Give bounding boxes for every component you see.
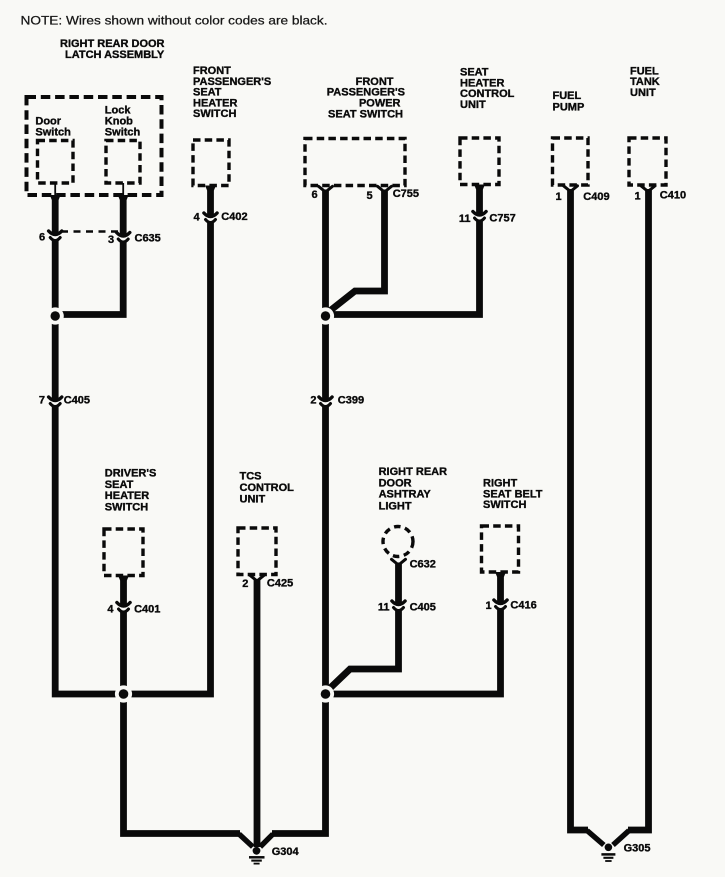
svg-text:FUEL: FUEL bbox=[553, 90, 582, 102]
door switch box (dashed) bbox=[38, 141, 74, 184]
connector C405 (left wire) bbox=[49, 397, 62, 407]
svg-text:5: 5 bbox=[367, 190, 373, 202]
connector C405 label bbox=[64, 395, 90, 407]
driver's seat heater switch box (dashed) bbox=[104, 529, 143, 576]
svg-text:C632: C632 bbox=[410, 559, 436, 571]
wire: bottom bus junction to ground G304 bbox=[260, 692, 325, 847]
connector C409 label bbox=[583, 191, 609, 203]
svg-text:C402: C402 bbox=[221, 211, 247, 223]
wire: C405 down, right along bottom, up to C402 bbox=[55, 223, 210, 695]
label: fuel pump bbox=[553, 90, 585, 113]
wire: pin 6 down through junction to C399 bbox=[322, 190, 329, 401]
fuel tank unit box (dashed) bbox=[629, 138, 666, 185]
terminal pin 1 of C410 bbox=[641, 186, 655, 192]
svg-text:UNIT: UNIT bbox=[630, 87, 656, 99]
connector C635 left half bbox=[49, 231, 62, 241]
right seat belt switch box (dashed) bbox=[482, 526, 519, 572]
pin 2 label bbox=[242, 578, 248, 590]
TCS control unit box (dashed) bbox=[238, 528, 276, 575]
svg-text:4: 4 bbox=[194, 212, 201, 224]
wire: door switch to connector C635 pin 6 bbox=[50, 195, 61, 234]
svg-text:G305: G305 bbox=[624, 843, 651, 855]
svg-text:CONTROL: CONTROL bbox=[240, 482, 295, 494]
connector C416 label bbox=[510, 600, 536, 612]
pin 6 label bbox=[39, 232, 45, 244]
terminal of C632 bbox=[392, 559, 406, 565]
connector C425 label bbox=[267, 578, 293, 590]
svg-text:C410: C410 bbox=[660, 190, 686, 202]
wire: lock knob switch to connector C635 pin 3 bbox=[118, 195, 129, 236]
pin 11 label bbox=[459, 213, 471, 225]
label: right seat belt switch bbox=[483, 478, 543, 512]
svg-text:C755: C755 bbox=[393, 188, 419, 200]
label: front passenger's power seat switch bbox=[327, 76, 405, 120]
svg-text:ASHTRAY: ASHTRAY bbox=[379, 489, 432, 501]
ground G304 label bbox=[272, 846, 300, 858]
svg-text:UNIT: UNIT bbox=[240, 494, 266, 506]
wire: TCS to ground G304 bbox=[254, 579, 261, 847]
junction node (bottom bus) bbox=[317, 685, 334, 702]
label: TCS control unit bbox=[240, 471, 295, 506]
ground G304 bbox=[249, 847, 265, 864]
svg-text:C409: C409 bbox=[583, 191, 609, 203]
label: right rear door latch assembly bbox=[60, 38, 165, 61]
connector C402 label bbox=[221, 211, 247, 223]
connector C401 bbox=[117, 603, 130, 613]
terminal pin 5 of C755 bbox=[378, 186, 392, 192]
connector C402 bbox=[204, 213, 217, 223]
svg-text:6: 6 bbox=[39, 232, 45, 244]
stub wire from door switch box bbox=[54, 183, 56, 196]
pin 7 label bbox=[39, 395, 45, 407]
right rear door latch assembly box (dashed) bbox=[27, 97, 162, 195]
svg-text:C401: C401 bbox=[134, 604, 160, 616]
ashtray light bulb (dashed circle) bbox=[383, 527, 413, 557]
svg-text:1: 1 bbox=[635, 191, 641, 203]
connector C757 bbox=[473, 212, 486, 222]
label: door switch bbox=[35, 116, 71, 139]
wire: switch to connector C416 pin 1 bbox=[495, 572, 506, 603]
wire: C399 down to junction bbox=[322, 407, 329, 695]
pin 1 label bbox=[486, 600, 492, 612]
label: driver's seat heater switch bbox=[105, 468, 157, 514]
svg-text:11: 11 bbox=[378, 602, 390, 614]
ground G305 label bbox=[624, 843, 651, 855]
stub wire from lock knob switch box bbox=[122, 183, 124, 196]
svg-text:PUMP: PUMP bbox=[553, 101, 585, 113]
connector C416 bbox=[494, 600, 507, 610]
junction node (power seat/heater control) bbox=[317, 307, 334, 324]
connector C410 label bbox=[660, 190, 686, 202]
svg-text:SWITCH: SWITCH bbox=[483, 499, 526, 511]
connector C632 label bbox=[410, 559, 436, 571]
connector C757 label bbox=[489, 213, 515, 225]
pin 11 label bbox=[378, 602, 390, 614]
svg-text:LIGHT: LIGHT bbox=[379, 500, 412, 512]
label: right rear door ashtray light bbox=[379, 466, 448, 512]
pin 1 label bbox=[635, 191, 641, 203]
terminal pin 1 of C409 bbox=[564, 186, 578, 192]
svg-text:1: 1 bbox=[486, 600, 492, 612]
label: fuel tank unit bbox=[630, 66, 660, 99]
svg-text:NOTE: Wires shown without colo: NOTE: Wires shown without color codes ar… bbox=[21, 14, 328, 28]
wire: fuel pump to ground G305 bbox=[571, 189, 604, 845]
pin 1 label bbox=[556, 191, 562, 203]
svg-text:HEATER: HEATER bbox=[105, 490, 149, 502]
label: front passenger's seat heater switch bbox=[193, 65, 271, 120]
wire: switch to connector C401 pin 4 bbox=[118, 576, 129, 606]
svg-text:C416: C416 bbox=[510, 600, 536, 612]
label: lock knob switch bbox=[105, 105, 141, 139]
svg-text:11: 11 bbox=[459, 213, 471, 225]
terminal pin 6 of C755 bbox=[319, 186, 333, 192]
wire: unit to connector C757 pin 11 bbox=[474, 185, 485, 215]
pin 4 label bbox=[107, 604, 114, 616]
svg-text:SEAT: SEAT bbox=[105, 479, 134, 491]
svg-text:C635: C635 bbox=[135, 233, 161, 245]
svg-text:DOOR: DOOR bbox=[379, 478, 412, 490]
connector C399 bbox=[319, 397, 332, 407]
svg-text:C399: C399 bbox=[338, 395, 364, 407]
note text bbox=[21, 14, 328, 28]
svg-text:4: 4 bbox=[107, 604, 114, 616]
svg-text:Switch: Switch bbox=[35, 127, 71, 139]
front passenger's power seat switch box (dashed) bbox=[305, 139, 405, 186]
svg-text:C757: C757 bbox=[489, 213, 515, 225]
pin 5 label bbox=[367, 190, 373, 202]
wire: pin 6 down to junction bbox=[52, 241, 59, 401]
wire: switch to connector C402 pin 4 bbox=[205, 186, 216, 217]
svg-text:7: 7 bbox=[39, 395, 45, 407]
connector C405 (ashtray) bbox=[392, 601, 405, 611]
pin 4 label bbox=[194, 212, 201, 224]
connector C635 right half bbox=[117, 233, 130, 243]
pin 6 label bbox=[312, 189, 318, 201]
svg-text:UNIT: UNIT bbox=[460, 99, 486, 111]
svg-text:2: 2 bbox=[310, 395, 316, 407]
label: seat heater control unit bbox=[460, 67, 515, 111]
connector C401 label bbox=[134, 604, 160, 616]
terminal pin 2 of C425 bbox=[250, 575, 264, 581]
wire: C405 down, left, diagonal to junction bbox=[327, 611, 399, 692]
connector C635 label bbox=[135, 233, 161, 245]
connector C755 label bbox=[393, 188, 419, 200]
svg-text:SWITCH: SWITCH bbox=[193, 108, 236, 120]
svg-text:6: 6 bbox=[312, 189, 318, 201]
svg-text:DRIVER'S: DRIVER'S bbox=[105, 468, 157, 480]
svg-text:LATCH ASSEMBLY: LATCH ASSEMBLY bbox=[65, 49, 165, 61]
svg-text:SEAT SWITCH: SEAT SWITCH bbox=[328, 108, 403, 120]
pin 3 label bbox=[108, 234, 114, 246]
svg-text:1: 1 bbox=[556, 191, 562, 203]
svg-text:TCS: TCS bbox=[240, 471, 262, 483]
wire: C401 down to ground G304 bbox=[124, 612, 253, 847]
pin 2 label bbox=[310, 395, 316, 407]
svg-text:C405: C405 bbox=[64, 395, 90, 407]
wire: C757 down and left to junction bbox=[328, 221, 480, 315]
wire: pin 3 down and left to junction bbox=[57, 242, 123, 315]
svg-text:RIGHT REAR: RIGHT REAR bbox=[379, 466, 448, 478]
wire: C416 down and left to junction bbox=[330, 610, 501, 695]
svg-text:Switch: Switch bbox=[105, 127, 141, 139]
connector C405 label bbox=[410, 602, 436, 614]
wire: fuel tank unit to ground G305 bbox=[613, 189, 649, 845]
seat heater control unit box (dashed) bbox=[460, 138, 499, 185]
svg-text:C405: C405 bbox=[410, 602, 436, 614]
wire: bulb to connector C405 bbox=[395, 563, 402, 605]
svg-text:2: 2 bbox=[242, 578, 248, 590]
svg-text:SWITCH: SWITCH bbox=[105, 501, 148, 513]
svg-text:C425: C425 bbox=[267, 578, 293, 590]
wire: pin 5 down, left, diagonal to junction bbox=[327, 190, 385, 314]
svg-text:G304: G304 bbox=[272, 846, 300, 858]
junction node (driver's wire at bottom bus) bbox=[115, 685, 132, 702]
connector C635 dashed tie line bbox=[61, 230, 118, 233]
lock knob switch box (dashed) bbox=[106, 141, 140, 184]
fuel pump box (dashed) bbox=[553, 138, 589, 185]
front passenger's seat heater switch box (dashed) bbox=[193, 140, 229, 186]
connector C399 label bbox=[338, 395, 364, 407]
junction node (door/lock wires) bbox=[47, 307, 64, 324]
ground G305 bbox=[601, 844, 615, 862]
svg-text:3: 3 bbox=[108, 234, 114, 246]
